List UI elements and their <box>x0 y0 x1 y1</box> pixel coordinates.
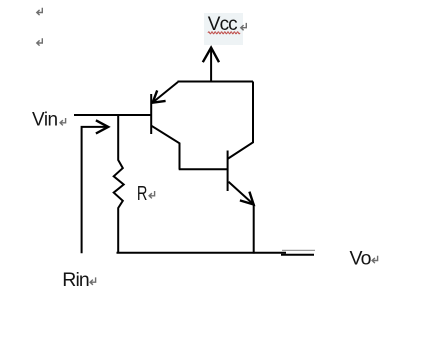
svg-text:Vo: Vo <box>350 248 372 270</box>
svg-text:Vin: Vin <box>32 110 58 131</box>
svg-text:Rin: Rin <box>62 269 89 291</box>
svg-text:R: R <box>137 182 148 205</box>
svg-text:Vcc: Vcc <box>208 14 237 35</box>
